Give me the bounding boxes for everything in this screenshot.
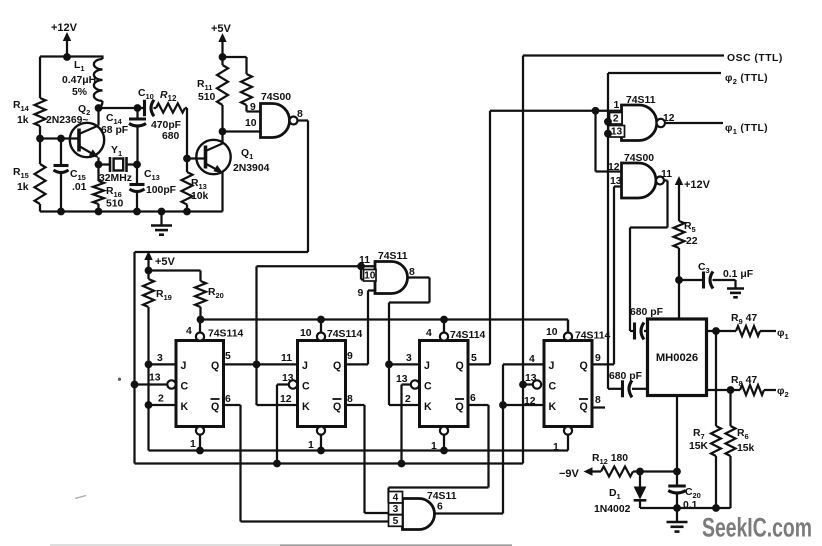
svg-text:74S114: 74S114 bbox=[450, 330, 485, 341]
+12V supply (driver) bbox=[675, 176, 683, 185]
node: Q2 base net bbox=[36, 135, 44, 143]
wire: FF3 Q riser to top gates bbox=[468, 363, 490, 365]
svg-text:Q: Q bbox=[333, 360, 341, 372]
wire: FF1 Qbar to 74S11 pin 5 bbox=[224, 404, 241, 406]
node: D1 anode bbox=[636, 468, 644, 476]
svg-text:11: 11 bbox=[661, 169, 672, 180]
ground (oscillator) bbox=[160, 212, 162, 226]
svg-text:3: 3 bbox=[406, 353, 412, 364]
wire bbox=[149, 269, 201, 271]
svg-text:1k: 1k bbox=[17, 115, 29, 126]
wire: pin 2 input bbox=[608, 121, 622, 123]
node: FF1 J bbox=[145, 361, 153, 369]
ic MH0026 bbox=[648, 319, 707, 396]
capacitor C20 0.1 bbox=[676, 472, 678, 487]
svg-text:680 pF: 680 pF bbox=[630, 307, 663, 318]
svg-text:12: 12 bbox=[608, 162, 620, 173]
pin 4 bubble (preset) bbox=[196, 333, 204, 341]
capacitor C14 68pF bbox=[136, 108, 138, 119]
wire: FF4 Qbar stub pin 8 bbox=[592, 406, 605, 408]
node: R7 top bbox=[712, 327, 720, 335]
wire bbox=[39, 204, 41, 212]
svg-text:2N2369~: 2N2369~ bbox=[46, 115, 88, 126]
resistor R12 680 bbox=[156, 103, 185, 112]
svg-text:0.1 μF: 0.1 μF bbox=[723, 269, 753, 280]
resistor R14 1k bbox=[35, 98, 46, 126]
svg-text:10: 10 bbox=[300, 328, 312, 339]
node: ground tap bbox=[673, 504, 681, 512]
node: C13 top bbox=[133, 161, 141, 169]
node: C15 tap bbox=[57, 135, 65, 143]
node: FF3 pin4 top bbox=[440, 316, 448, 324]
wire: clock bus bottom bbox=[135, 462, 524, 464]
resistor R8 47 bbox=[740, 385, 764, 395]
resistor R9 47 bbox=[736, 326, 760, 336]
svg-text:C: C bbox=[424, 381, 432, 393]
wire: 74S11 out 8 to FF3 J/K bbox=[408, 276, 430, 278]
ground (output stage) bbox=[676, 508, 678, 522]
node: FF3 clock tap bbox=[398, 460, 406, 468]
wire: bottom rail bbox=[640, 507, 731, 509]
svg-text:2N3904: 2N3904 bbox=[233, 163, 270, 174]
wire: OSC riser bbox=[522, 56, 524, 464]
svg-text:11: 11 bbox=[281, 353, 292, 364]
svg-text:Q: Q bbox=[580, 360, 588, 372]
resistor R20 bbox=[199, 271, 201, 282]
svg-text:5: 5 bbox=[471, 353, 477, 364]
svg-text:J: J bbox=[424, 360, 430, 372]
svg-text:13: 13 bbox=[611, 127, 623, 138]
svg-text:10: 10 bbox=[546, 327, 558, 338]
node: R6 top bbox=[727, 386, 735, 394]
resistor R6 15k bbox=[729, 390, 731, 426]
Q1 collector diagonal bbox=[206, 144, 223, 152]
node: FF1 K bbox=[145, 401, 153, 409]
svg-text:J: J bbox=[302, 360, 308, 372]
node: pin11/10 tie bbox=[357, 262, 365, 270]
svg-text:+12V: +12V bbox=[51, 22, 78, 34]
svg-text:C: C bbox=[302, 381, 310, 393]
wire: FF2 Qbar to 74S11 pin 3 bbox=[346, 404, 365, 406]
svg-text:6: 6 bbox=[437, 502, 443, 513]
svg-text:8: 8 bbox=[297, 109, 303, 120]
svg-text:SeekIC.com: SeekIC.com bbox=[702, 513, 812, 543]
pin 1 bubble (clear) bbox=[317, 427, 325, 435]
wire bbox=[39, 126, 41, 164]
wire: FF4 Q riser to 74S00 pin 13 bbox=[592, 363, 614, 365]
svg-text:J: J bbox=[181, 360, 187, 372]
wire: pin 10 input bbox=[223, 130, 261, 132]
Q1 collector wire bbox=[221, 132, 223, 144]
svg-text:8: 8 bbox=[409, 267, 415, 278]
wire: pin 9 input bbox=[247, 110, 261, 112]
svg-text:1: 1 bbox=[431, 441, 437, 452]
nand gate 74S00 U1a pins 9,10 -> 8 bbox=[261, 104, 290, 138]
svg-text:68 pF: 68 pF bbox=[101, 125, 128, 136]
svg-text:Q: Q bbox=[333, 401, 341, 413]
flip-flop U2 74S114 #1 bbox=[176, 341, 224, 427]
wire to Q2 base bbox=[40, 137, 79, 139]
resistor R13 10k bbox=[182, 172, 193, 205]
+12V supply bbox=[63, 32, 71, 41]
wire: FF1 C input bbox=[135, 383, 168, 385]
node: Q1 collector bbox=[219, 128, 227, 136]
svg-text:Q: Q bbox=[456, 360, 464, 372]
svg-text:J: J bbox=[549, 360, 555, 372]
Q2 base bar bbox=[77, 129, 81, 152]
Y1 right plate bbox=[125, 157, 128, 172]
pin 10 bubble (preset) bbox=[317, 333, 325, 341]
nand gate 74S11 top: pins 1,2,13 -> 12 bbox=[622, 105, 657, 141]
wire: oscillator ground rail bbox=[40, 210, 223, 212]
svg-text:Q: Q bbox=[580, 401, 588, 413]
wire: phi2 output bbox=[707, 389, 741, 391]
FF3 clock bubble bbox=[411, 380, 419, 388]
svg-text:8: 8 bbox=[347, 394, 353, 405]
svg-text:3: 3 bbox=[157, 353, 163, 364]
svg-text:MH0026: MH0026 bbox=[656, 352, 698, 364]
svg-text:1N4002: 1N4002 bbox=[594, 504, 631, 515]
svg-text:Q: Q bbox=[456, 401, 464, 413]
node: FF4 clock tap bbox=[519, 381, 527, 389]
wire: clock net from 74S00 pin 8 bbox=[307, 121, 309, 253]
svg-text:680: 680 bbox=[162, 131, 180, 142]
svg-text:10: 10 bbox=[364, 271, 376, 282]
node: FF1 clock tap bbox=[131, 381, 139, 389]
node: FF1 Q bbox=[253, 361, 261, 369]
wire: FF3 K input bbox=[389, 404, 420, 406]
flip-flop U5 74S114 #4 bbox=[544, 341, 592, 427]
node: 74S11 pin 13 bbox=[604, 130, 612, 138]
resistor R19 bbox=[143, 279, 154, 307]
svg-text:10: 10 bbox=[245, 118, 257, 129]
resistor R15 1k bbox=[35, 164, 46, 204]
wire: 74S11 out 6 to FF4 bbox=[435, 512, 504, 514]
wire: FF preset top bus bbox=[201, 318, 569, 320]
Q2 emitter diagonal bbox=[79, 146, 97, 157]
transistor Q1 body bbox=[196, 140, 230, 174]
wire: pin 11 input bbox=[257, 265, 376, 267]
svg-text:1: 1 bbox=[553, 442, 559, 453]
+5V supply (oscillator buffer) bbox=[218, 33, 226, 42]
svg-text:6: 6 bbox=[225, 394, 231, 405]
wire: FF1 Q riser to 74S11 pin 11 bbox=[255, 266, 257, 405]
svg-text:74S114: 74S114 bbox=[208, 329, 243, 340]
resistor R11 510 bbox=[221, 57, 223, 65]
capacitor 680pF (top input) bbox=[633, 323, 636, 340]
wire R5 to MH0026 bbox=[678, 248, 680, 319]
-9V supply / resistor R12 180 bbox=[584, 467, 593, 475]
svg-text:2: 2 bbox=[613, 114, 619, 125]
svg-text:Q: Q bbox=[211, 360, 219, 372]
wire: 74S00 pin 8 out bbox=[298, 119, 309, 121]
svg-text:11: 11 bbox=[359, 255, 370, 266]
svg-text:5%: 5% bbox=[72, 87, 87, 98]
node: +5V split bbox=[145, 267, 153, 275]
svg-text:.01: .01 bbox=[72, 182, 87, 193]
wire: phi1 output bbox=[707, 330, 737, 332]
Q1 base wire bbox=[187, 157, 206, 159]
+5V supply (counter) bbox=[144, 251, 152, 260]
resistor R16 510 bbox=[97, 165, 99, 182]
node: C20 / R12 bbox=[673, 468, 681, 476]
pin 1 bubble (clear) bbox=[564, 427, 572, 435]
node: FF2 clock tap bbox=[273, 460, 281, 468]
svg-text:15K: 15K bbox=[689, 441, 709, 452]
svg-text:9: 9 bbox=[358, 288, 364, 299]
node: FF3 J bbox=[385, 361, 393, 369]
wire: FF2 K tie bbox=[257, 404, 298, 406]
wire: pin 13 input bbox=[608, 132, 622, 134]
svg-text:1: 1 bbox=[190, 439, 196, 450]
svg-text:K: K bbox=[181, 401, 189, 413]
wire: phi1 (TTL) output bbox=[665, 122, 723, 124]
svg-text:−9V: −9V bbox=[559, 468, 580, 480]
svg-text:K: K bbox=[549, 401, 557, 413]
inductor L1 0.47uH 5% bbox=[101, 57, 103, 60]
ground (C3) bbox=[727, 287, 744, 290]
svg-text:C: C bbox=[181, 381, 189, 393]
svg-text:0.1: 0.1 bbox=[683, 500, 698, 511]
scan artifact: speck left of FF1 bbox=[118, 378, 121, 381]
node: FF2 pin1 bbox=[317, 447, 325, 455]
svg-text:12: 12 bbox=[280, 394, 292, 405]
wire FF4 pin10 drop bbox=[567, 320, 569, 333]
scan artifact: bottom streak bbox=[50, 544, 280, 546]
Q2 collector diagonal bbox=[79, 126, 99, 135]
svg-text:15k: 15k bbox=[737, 443, 755, 454]
svg-text:22: 22 bbox=[686, 236, 698, 247]
capacitor C3 0.1uF bbox=[679, 279, 703, 281]
svg-text:13: 13 bbox=[610, 176, 622, 187]
svg-text:+12V: +12V bbox=[684, 179, 711, 191]
wire: 74S00 out 11 to 680pF bbox=[664, 179, 668, 181]
svg-text:470pF: 470pF bbox=[151, 120, 181, 131]
wire: OSC (TTL) output bbox=[523, 54, 724, 56]
node: Q2 collector / L1 bbox=[95, 104, 103, 112]
svg-text:74S00: 74S00 bbox=[624, 153, 654, 164]
svg-text:0.47μH: 0.47μH bbox=[62, 75, 96, 86]
wire: FF3.Q to 74S00 pin 12 bbox=[594, 111, 596, 172]
svg-text:74S11: 74S11 bbox=[378, 251, 408, 262]
wire: FF3 Qbar to bottom 74S11 pin 4 bbox=[468, 404, 489, 406]
svg-text:OSC (TTL): OSC (TTL) bbox=[727, 53, 783, 64]
svg-text:74S00: 74S00 bbox=[261, 92, 291, 103]
FF2 clock bubble bbox=[289, 380, 297, 388]
svg-text:5: 5 bbox=[393, 516, 399, 527]
Q1 base bar bbox=[204, 146, 208, 169]
resistor R7 15K bbox=[715, 331, 717, 426]
svg-text:13: 13 bbox=[396, 374, 408, 385]
wire: phi2 riser down to 680pF bbox=[607, 73, 609, 389]
svg-text:4: 4 bbox=[393, 493, 399, 504]
resistor (pull-up to 74S00 pin 9) bbox=[223, 56, 247, 58]
svg-text:5: 5 bbox=[225, 351, 231, 362]
wire: FF2 Q to 74S11 pin 9 bbox=[346, 363, 369, 365]
svg-text:680 pF: 680 pF bbox=[609, 371, 642, 382]
node: +12V junction bbox=[63, 53, 71, 61]
svg-text:100pF: 100pF bbox=[146, 185, 176, 196]
and gate 74S11 U6a body bbox=[375, 262, 408, 294]
svg-text:2: 2 bbox=[158, 394, 164, 405]
node: FF3 pin1 bbox=[440, 447, 448, 455]
svg-text:+5V: +5V bbox=[211, 23, 232, 35]
svg-text:13: 13 bbox=[149, 373, 161, 384]
wire: FF4 J/K tie from bottom 74S11 out 6 bbox=[503, 363, 544, 365]
svg-text:10k: 10k bbox=[191, 191, 209, 202]
svg-text:9: 9 bbox=[347, 351, 353, 362]
svg-text:K: K bbox=[302, 401, 310, 413]
svg-text:9: 9 bbox=[595, 353, 601, 364]
node: FF4 K tie bbox=[499, 401, 507, 409]
node: 74S11 pin 2 bbox=[604, 118, 612, 126]
svg-text:74S11: 74S11 bbox=[626, 95, 656, 106]
capacitor C15 .01 bbox=[60, 139, 62, 166]
pin 10 bubble (preset) bbox=[564, 333, 572, 341]
resistor R5 22 bbox=[674, 221, 685, 248]
wire: FF1 K input bbox=[149, 404, 177, 406]
svg-text:Q: Q bbox=[211, 401, 219, 413]
FF4 clock bubble bbox=[533, 380, 541, 388]
wire left branch down bbox=[39, 57, 41, 99]
wire: phi2 (TTL) line bbox=[608, 72, 721, 74]
node: FF2 pin10 top bbox=[317, 316, 325, 324]
capacitor C13 100pF bbox=[136, 165, 138, 185]
nand gate 74S00 pins 12,13 -> 11 bbox=[622, 163, 657, 198]
Q1 emitter wire bbox=[221, 173, 223, 212]
pin 1 bubble (clear) bbox=[196, 427, 204, 435]
and gate 74S11 U6b body bbox=[403, 499, 435, 530]
wire top horizontal bbox=[40, 55, 104, 57]
FF1 clock bubble bbox=[167, 380, 175, 388]
svg-text:K: K bbox=[424, 401, 432, 413]
node: Q2 emitter / Y1 bbox=[95, 161, 103, 169]
node: C3 tap bbox=[675, 276, 683, 284]
node: R7 bottom bbox=[712, 504, 720, 512]
node: Q1 base / R13 bbox=[183, 155, 191, 163]
node: +5V split bbox=[219, 53, 227, 61]
svg-text:74S11: 74S11 bbox=[427, 491, 457, 502]
svg-text:C: C bbox=[549, 381, 557, 393]
wire: FF pin-1 bottom bus bbox=[149, 449, 569, 451]
diode D1 1N4002 bbox=[639, 472, 641, 487]
svg-text:4: 4 bbox=[426, 328, 432, 339]
svg-text:1k: 1k bbox=[17, 182, 29, 193]
wire R20 bottom bbox=[199, 307, 201, 320]
Q2 emitter wire bbox=[97, 158, 99, 165]
wire: FF1 Q out to FF2 bbox=[224, 363, 298, 365]
node: C14 top bbox=[134, 104, 142, 112]
wire: MH0026 VEE down bbox=[676, 396, 678, 472]
svg-text:1: 1 bbox=[308, 440, 314, 451]
svg-text:510: 510 bbox=[106, 199, 124, 210]
pin 1 bubble (clear) bbox=[440, 427, 448, 435]
svg-text:2: 2 bbox=[405, 394, 411, 405]
pin 4 bubble (preset) bbox=[440, 333, 448, 341]
flip-flop U3 74S114 #2 bbox=[298, 341, 346, 427]
transistor Q2 body bbox=[70, 123, 104, 157]
wire: R19 / J-K rail bbox=[147, 307, 149, 451]
node: FF1 pin4 top bbox=[197, 316, 205, 324]
svg-text:510: 510 bbox=[198, 92, 216, 103]
capacitor C10 bbox=[138, 107, 145, 109]
wire collector to C10/C14 bbox=[99, 107, 138, 109]
wire R12 down to Q1 base bbox=[186, 108, 188, 159]
svg-text:1: 1 bbox=[614, 100, 620, 111]
svg-text:8: 8 bbox=[595, 395, 601, 406]
node: split to 74S00 pin 12 bbox=[592, 107, 600, 115]
node: FF1 pin1 bbox=[196, 447, 204, 455]
wire: FF1 J input bbox=[149, 363, 177, 365]
svg-text:6: 6 bbox=[470, 393, 476, 404]
Y1 left plate bbox=[109, 157, 112, 172]
svg-text:3: 3 bbox=[393, 504, 399, 515]
wire: pin 10 input bbox=[361, 278, 375, 280]
svg-text:9: 9 bbox=[250, 102, 256, 113]
svg-text:4: 4 bbox=[186, 326, 192, 337]
scan artifact: dash bottom-left bbox=[75, 496, 86, 499]
svg-text:74S114: 74S114 bbox=[575, 331, 610, 342]
Q2 collector wire bbox=[97, 108, 99, 126]
capacitor 680pF (bottom input) bbox=[608, 388, 621, 390]
flip-flop U4 74S114 #3 bbox=[420, 341, 469, 427]
Q1 emitter diagonal bbox=[206, 164, 222, 173]
svg-text:74S114: 74S114 bbox=[327, 329, 362, 340]
svg-text:+5V: +5V bbox=[155, 256, 176, 268]
wire: FF3 J input bbox=[389, 363, 420, 365]
